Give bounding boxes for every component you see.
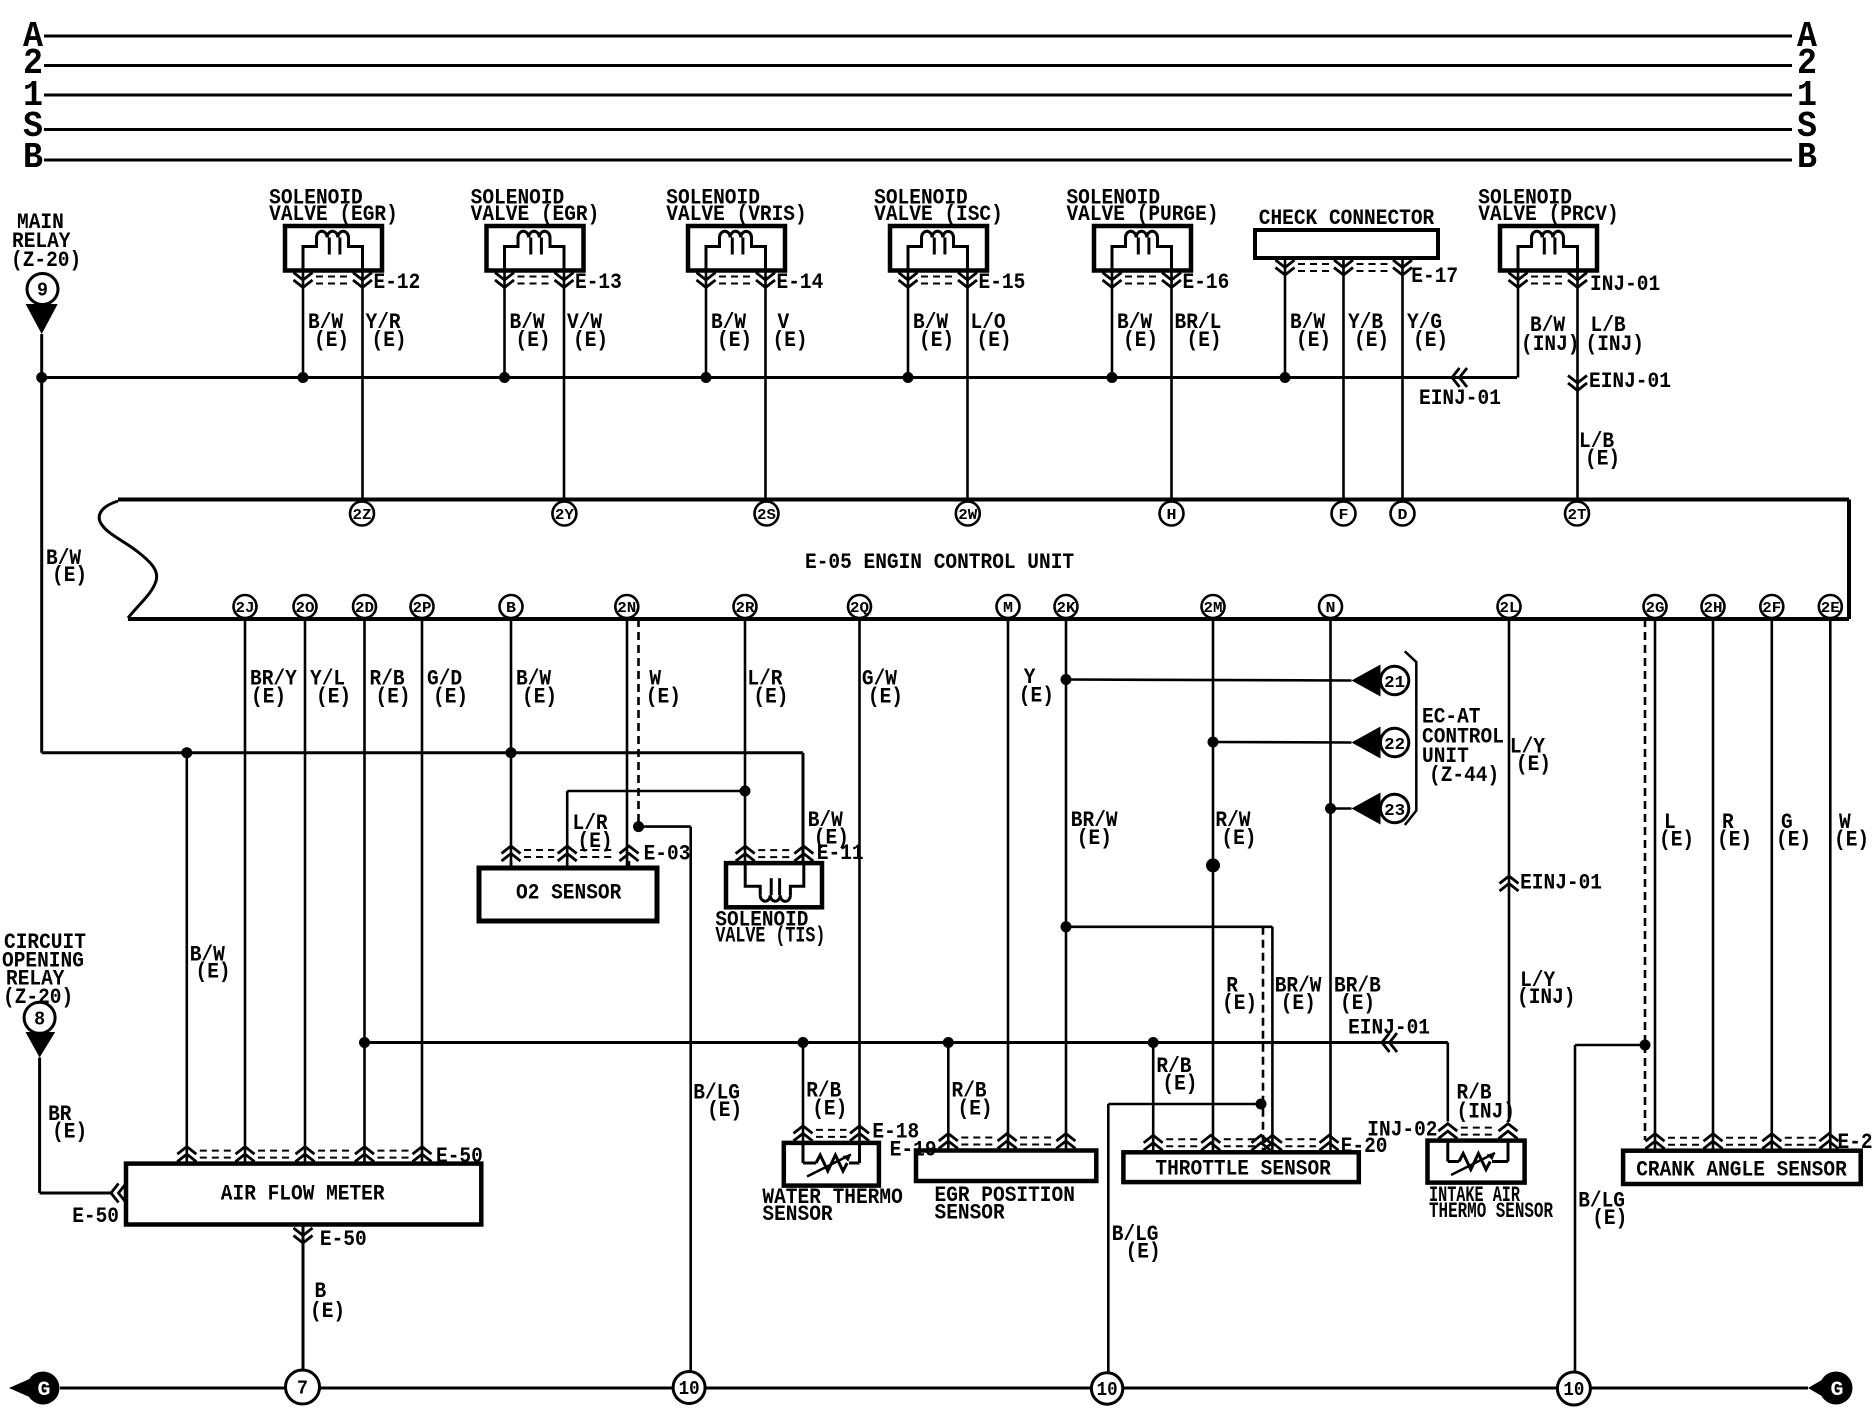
- svg-text:(E): (E): [372, 328, 407, 353]
- svg-text:2L: 2L: [1500, 600, 1519, 617]
- svg-text:(E): (E): [1162, 1072, 1197, 1097]
- svg-text:E-03: E-03: [644, 842, 691, 867]
- svg-text:(E): (E): [812, 1097, 847, 1122]
- svg-text:(E): (E): [1834, 828, 1869, 853]
- svg-text:(INJ): (INJ): [1457, 1100, 1516, 1125]
- svg-text:D: D: [1398, 507, 1408, 524]
- svg-text:2G: 2G: [1646, 600, 1665, 617]
- svg-text:2P: 2P: [413, 600, 432, 617]
- svg-text:E-21: E-21: [1838, 1130, 1872, 1155]
- svg-text:(E): (E): [310, 1299, 345, 1324]
- svg-text:EINJ-01: EINJ-01: [1348, 1016, 1430, 1041]
- svg-text:CRANK ANGLE SENSOR: CRANK ANGLE SENSOR: [1636, 1158, 1847, 1183]
- svg-text:(E): (E): [1776, 828, 1811, 853]
- svg-text:G: G: [1831, 1379, 1844, 1402]
- svg-text:8: 8: [34, 1008, 45, 1030]
- svg-text:(INJ): (INJ): [1521, 332, 1580, 357]
- svg-text:(E): (E): [573, 328, 608, 353]
- svg-text:2J: 2J: [236, 600, 255, 617]
- svg-text:(E): (E): [753, 685, 788, 710]
- svg-text:2H: 2H: [1704, 600, 1723, 617]
- svg-text:THERMO SENSOR: THERMO SENSOR: [1429, 1199, 1554, 1224]
- svg-text:E-50: E-50: [436, 1144, 483, 1169]
- svg-text:(E): (E): [1019, 684, 1054, 709]
- svg-text:SENSOR: SENSOR: [935, 1201, 1006, 1226]
- svg-text:10: 10: [679, 1378, 700, 1400]
- svg-text:VALVE (ISC): VALVE (ISC): [874, 202, 1003, 227]
- svg-text:(E): (E): [1413, 328, 1448, 353]
- svg-text:(E): (E): [316, 685, 351, 710]
- svg-text:VALVE (EGR): VALVE (EGR): [269, 202, 398, 227]
- svg-text:10: 10: [1097, 1379, 1118, 1401]
- svg-text:E-50: E-50: [72, 1204, 119, 1229]
- svg-text:F: F: [1339, 507, 1349, 524]
- svg-text:2Q: 2Q: [850, 600, 869, 617]
- svg-text:O2 SENSOR: O2 SENSOR: [516, 881, 622, 906]
- svg-text:E-19: E-19: [890, 1138, 937, 1163]
- svg-text:2Z: 2Z: [353, 507, 372, 524]
- svg-text:(E): (E): [1585, 447, 1620, 472]
- svg-text:2W: 2W: [958, 507, 977, 524]
- svg-text:(E): (E): [1354, 328, 1389, 353]
- svg-text:VALVE (PURGE): VALVE (PURGE): [1066, 202, 1218, 227]
- svg-text:H: H: [1167, 507, 1177, 524]
- svg-text:M: M: [1003, 600, 1013, 617]
- svg-text:THROTTLE SENSOR: THROTTLE SENSOR: [1155, 1157, 1331, 1182]
- svg-text:(E): (E): [1516, 752, 1551, 777]
- svg-text:2S: 2S: [757, 507, 776, 524]
- svg-text:VALVE (EGR): VALVE (EGR): [471, 202, 600, 227]
- svg-text:AIR FLOW METER: AIR FLOW METER: [221, 1182, 385, 1207]
- svg-text:(E): (E): [958, 1097, 993, 1122]
- svg-text:(E): (E): [717, 328, 752, 353]
- svg-text:E-14: E-14: [777, 270, 824, 295]
- svg-text:(E): (E): [522, 685, 557, 710]
- svg-text:2Y: 2Y: [555, 507, 574, 524]
- svg-text:2M: 2M: [1204, 600, 1223, 617]
- svg-text:(E): (E): [52, 1120, 87, 1145]
- svg-text:21: 21: [1384, 674, 1405, 693]
- svg-text:E-17: E-17: [1411, 264, 1458, 289]
- svg-text:23: 23: [1384, 802, 1405, 821]
- svg-text:(E): (E): [1281, 991, 1316, 1016]
- svg-text:2F: 2F: [1762, 600, 1781, 617]
- svg-text:(E): (E): [516, 328, 551, 353]
- svg-text:(E): (E): [977, 328, 1012, 353]
- svg-text:2O: 2O: [296, 600, 315, 617]
- svg-text:(E): (E): [1221, 826, 1256, 851]
- svg-text:CHECK CONNECTOR: CHECK CONNECTOR: [1259, 206, 1435, 231]
- svg-text:E-12: E-12: [374, 270, 421, 295]
- svg-text:E-16: E-16: [1183, 270, 1230, 295]
- svg-text:(Z-20): (Z-20): [11, 248, 81, 273]
- svg-text:(E): (E): [196, 960, 231, 985]
- svg-text:(E): (E): [1592, 1206, 1627, 1231]
- svg-text:(E): (E): [1126, 1240, 1161, 1265]
- svg-text:(INJ): (INJ): [1517, 985, 1576, 1010]
- svg-text:(E): (E): [1077, 826, 1112, 851]
- svg-text:E-05 ENGIN CONTROL UNIT: E-05 ENGIN CONTROL UNIT: [805, 550, 1074, 575]
- svg-text:(E): (E): [433, 685, 468, 710]
- svg-text:VALVE (TIS): VALVE (TIS): [715, 924, 825, 949]
- svg-text:(INJ): (INJ): [1586, 332, 1645, 357]
- svg-text:E-50: E-50: [320, 1227, 367, 1252]
- svg-text:N: N: [1326, 600, 1336, 617]
- svg-text:VALVE (VRIS): VALVE (VRIS): [666, 202, 806, 227]
- svg-text:(E): (E): [814, 826, 849, 851]
- svg-text:E-15: E-15: [979, 270, 1026, 295]
- svg-text:EINJ-01: EINJ-01: [1419, 386, 1501, 411]
- svg-text:7: 7: [297, 1378, 308, 1400]
- svg-text:VALVE (PRCV): VALVE (PRCV): [1478, 202, 1618, 227]
- svg-text:B: B: [1797, 137, 1817, 178]
- svg-text:2T: 2T: [1568, 507, 1587, 524]
- svg-text:(E): (E): [1187, 328, 1222, 353]
- svg-text:2R: 2R: [736, 600, 755, 617]
- svg-text:(E): (E): [707, 1098, 742, 1123]
- svg-text:(E): (E): [1659, 828, 1694, 853]
- svg-text:E-13: E-13: [575, 270, 622, 295]
- svg-text:(E): (E): [1717, 828, 1752, 853]
- svg-text:22: 22: [1384, 736, 1405, 755]
- svg-text:2D: 2D: [355, 600, 374, 617]
- svg-text:EINJ-01: EINJ-01: [1589, 369, 1671, 394]
- svg-text:(E): (E): [1123, 328, 1158, 353]
- svg-text:(E): (E): [376, 685, 411, 710]
- svg-text:EINJ-01: EINJ-01: [1520, 871, 1602, 896]
- svg-text:(E): (E): [919, 328, 954, 353]
- svg-text:(E): (E): [868, 685, 903, 710]
- svg-text:(E): (E): [1296, 328, 1331, 353]
- svg-text:SENSOR: SENSOR: [762, 1202, 833, 1227]
- svg-text:B: B: [506, 600, 516, 617]
- svg-text:(E): (E): [314, 328, 349, 353]
- svg-text:2K: 2K: [1057, 600, 1076, 617]
- svg-text:(E): (E): [1222, 991, 1257, 1016]
- svg-text:(E): (E): [1340, 991, 1375, 1016]
- svg-text:2E: 2E: [1821, 600, 1840, 617]
- svg-text:(Z-44): (Z-44): [1429, 763, 1499, 788]
- svg-text:B: B: [23, 137, 43, 178]
- svg-text:2N: 2N: [617, 600, 636, 617]
- svg-text:INJ-02: INJ-02: [1367, 1118, 1437, 1143]
- svg-text:(E): (E): [773, 328, 808, 353]
- svg-text:(E): (E): [251, 685, 286, 710]
- svg-text:G: G: [38, 1379, 51, 1402]
- svg-text:9: 9: [37, 280, 48, 302]
- svg-text:(E): (E): [646, 685, 681, 710]
- svg-text:10: 10: [1563, 1379, 1584, 1401]
- svg-text:(E): (E): [52, 563, 87, 588]
- svg-text:INJ-01: INJ-01: [1590, 272, 1660, 297]
